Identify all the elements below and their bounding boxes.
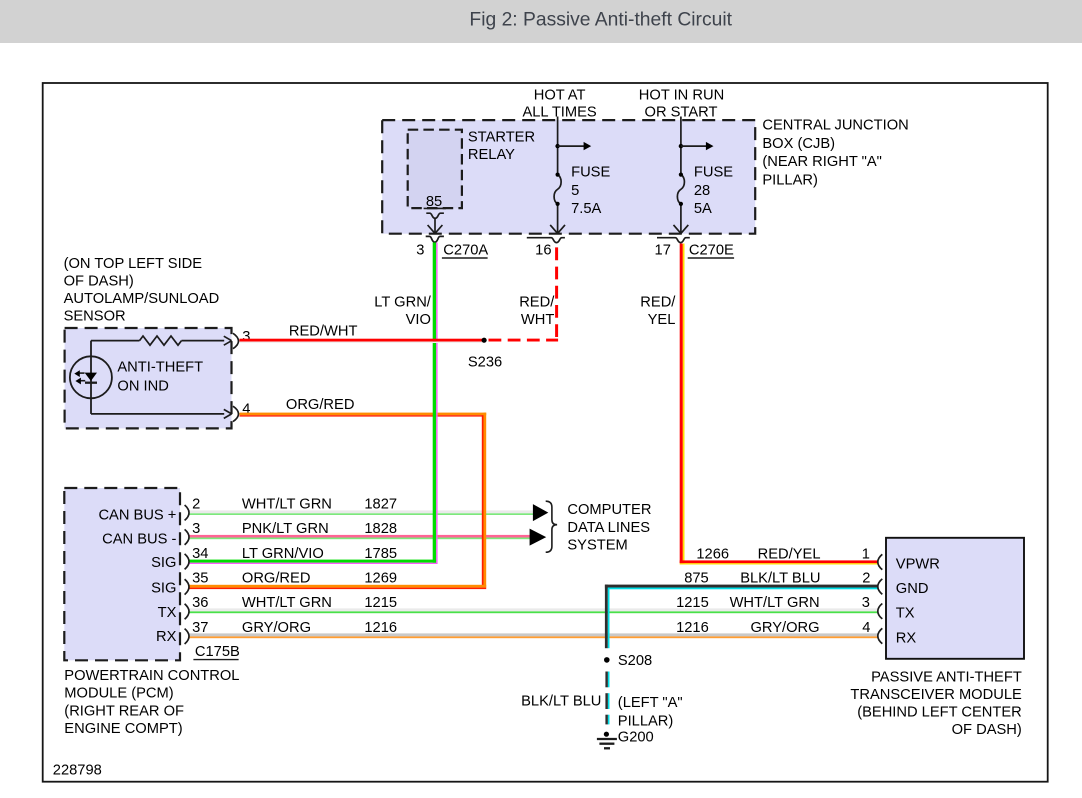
feed tap arrow at fuse 5: [555, 142, 591, 150]
net label HOT IN RUN OR START: [639, 87, 724, 120]
svg-text:S236: S236: [468, 354, 502, 370]
wire RED/WHT dashed segment: [489, 244, 559, 340]
svg-text:5: 5: [571, 183, 579, 199]
wire LT GRN/VIO 1785: [189, 243, 438, 565]
svg-text:DATA LINES: DATA LINES: [567, 520, 650, 536]
svg-text:GND: GND: [896, 581, 929, 597]
connector C270A pin 3: [416, 236, 488, 258]
svg-text:SENSOR: SENSOR: [64, 309, 126, 325]
splice S208: [604, 653, 652, 669]
svg-text:1828: 1828: [364, 521, 397, 537]
svg-text:RELAY: RELAY: [468, 147, 515, 163]
svg-text:CENTRAL JUNCTION: CENTRAL JUNCTION: [762, 118, 908, 134]
powertrain control module box: [64, 488, 180, 660]
connector C270E pin 17: [655, 238, 735, 259]
svg-text:1216: 1216: [364, 620, 397, 636]
svg-text:Fig 2: Passive Anti-theft Circ: Fig 2: Passive Anti-theft Circuit: [469, 9, 732, 30]
svg-text:3: 3: [862, 595, 870, 611]
svg-text:34: 34: [192, 546, 208, 562]
svg-text:STARTER: STARTER: [468, 130, 535, 146]
svg-text:PILLAR): PILLAR): [762, 173, 818, 189]
svg-text:RED/YEL: RED/YEL: [758, 546, 821, 562]
splice S236: [468, 338, 502, 371]
svg-text:RX: RX: [896, 630, 917, 646]
computer data lines arrow 1: [533, 504, 548, 521]
svg-text:(ON TOP LEFT SIDE: (ON TOP LEFT SIDE: [64, 256, 203, 272]
svg-text:PASSIVE ANTI-THEFT: PASSIVE ANTI-THEFT: [871, 669, 1022, 685]
svg-text:OF DASH): OF DASH): [952, 722, 1022, 738]
transceiver caption: [850, 669, 1022, 738]
connector C175B: [193, 644, 240, 660]
central junction box CJB: [382, 120, 755, 234]
wire RED/YEL 1266: [680, 244, 878, 565]
transceiver connector brackets: [878, 554, 883, 643]
svg-text:3: 3: [416, 243, 424, 259]
svg-text:1216: 1216: [676, 620, 709, 636]
svg-text:4: 4: [862, 620, 870, 636]
label RED/WHT vertical: [519, 295, 555, 329]
wire WHT/LT GRN 1827: [189, 510, 534, 515]
svg-text:HOT IN RUN: HOT IN RUN: [639, 87, 724, 103]
svg-text:PNK/LT GRN: PNK/LT GRN: [242, 521, 329, 537]
svg-text:RX: RX: [156, 629, 177, 645]
svg-text:1785: 1785: [364, 546, 397, 562]
svg-text:1215: 1215: [364, 595, 397, 611]
svg-text:ORG/RED: ORG/RED: [286, 397, 355, 413]
svg-text:CAN BUS -: CAN BUS -: [102, 532, 176, 548]
svg-text:WHT/LT GRN: WHT/LT GRN: [242, 595, 332, 611]
svg-text:C175B: C175B: [195, 644, 240, 660]
svg-text:RED/: RED/: [519, 295, 555, 311]
svg-text:BLK/LT BLU: BLK/LT BLU: [521, 693, 601, 709]
label RED/YEL vertical: [640, 295, 676, 329]
svg-text:ALL TIMES: ALL TIMES: [522, 104, 596, 120]
sensor pin 4: [224, 401, 251, 421]
svg-text:C270E: C270E: [689, 243, 734, 259]
transceiver side circuit numbers: [676, 546, 729, 635]
relay pin 85 connector: [426, 213, 444, 233]
sensor pin 3: [224, 329, 251, 349]
svg-text:228798: 228798: [53, 762, 102, 778]
svg-text:1215: 1215: [676, 595, 709, 611]
svg-text:2: 2: [862, 570, 870, 586]
svg-text:1827: 1827: [364, 497, 397, 513]
anti-theft on indicator label: [117, 359, 203, 394]
fuse F28 5A: [674, 117, 734, 234]
sensor internal bottom wire: [91, 413, 224, 415]
fuse F5 7.5A: [550, 117, 610, 234]
svg-text:TRANSCEIVER MODULE: TRANSCEIVER MODULE: [850, 687, 1022, 703]
svg-text:AUTOLAMP/SUNLOAD: AUTOLAMP/SUNLOAD: [64, 291, 220, 307]
PCM caption: [64, 668, 239, 737]
anti-theft LED: [70, 341, 112, 414]
svg-text:ANTI-THEFT: ANTI-THEFT: [117, 359, 203, 375]
wire WHT/LT GRN 1215: [189, 608, 878, 613]
label LT GRN/VIO: [374, 295, 432, 329]
relay pin 85 label: [424, 194, 446, 210]
svg-text:TX: TX: [158, 605, 177, 621]
PCM wire color labels: [242, 497, 332, 636]
svg-text:2: 2: [192, 497, 200, 513]
svg-text:1266: 1266: [696, 546, 729, 562]
svg-text:37: 37: [192, 620, 208, 636]
ground location label: [618, 695, 683, 730]
svg-text:ENGINE COMPT): ENGINE COMPT): [64, 721, 182, 737]
svg-text:1269: 1269: [364, 570, 397, 586]
svg-text:FUSE: FUSE: [694, 164, 733, 180]
resistor in sensor: [91, 336, 224, 345]
PCM pin name labels: [98, 507, 176, 645]
svg-text:GRY/ORG: GRY/ORG: [750, 620, 819, 636]
svg-text:RED/WHT: RED/WHT: [289, 323, 358, 339]
svg-text:SIG: SIG: [151, 555, 176, 571]
transceiver module box: [886, 538, 1024, 659]
svg-text:S208: S208: [618, 653, 652, 669]
svg-text:28: 28: [694, 183, 710, 199]
PCM pin numbers: [192, 497, 208, 636]
transceiver pin numbers: [862, 546, 871, 635]
svg-text:WHT: WHT: [521, 312, 554, 328]
svg-text:1: 1: [862, 546, 870, 562]
svg-text:ON IND: ON IND: [117, 379, 168, 395]
svg-text:875: 875: [684, 570, 709, 586]
svg-text:ORG/RED: ORG/RED: [242, 570, 311, 586]
svg-text:17: 17: [655, 243, 671, 259]
sensor caption: [64, 256, 220, 325]
wire GRY/ORG 1216: [189, 633, 878, 638]
computer data lines label: [567, 502, 651, 554]
svg-text:CAN BUS +: CAN BUS +: [98, 507, 176, 523]
svg-text:(NEAR RIGHT "A": (NEAR RIGHT "A": [762, 154, 882, 170]
wire BLK/LT BLU 875: [605, 585, 878, 725]
PCM circuit numbers: [364, 497, 397, 636]
svg-text:C270A: C270A: [443, 243, 488, 259]
computer data lines arrow 2: [530, 529, 547, 546]
svg-text:WHT/LT GRN: WHT/LT GRN: [242, 497, 332, 513]
svg-text:3: 3: [192, 521, 200, 537]
svg-text:35: 35: [192, 570, 208, 586]
wire ORG/RED 1269: [189, 413, 487, 589]
svg-text:WHT/LT GRN: WHT/LT GRN: [730, 595, 820, 611]
transceiver side wire labels: [730, 546, 821, 635]
svg-text:SYSTEM: SYSTEM: [567, 537, 627, 553]
svg-text:36: 36: [192, 595, 208, 611]
svg-text:PILLAR): PILLAR): [618, 714, 674, 730]
svg-text:G200: G200: [618, 730, 654, 746]
wire PNK/LT GRN 1828: [189, 535, 532, 539]
svg-text:LT GRN/: LT GRN/: [374, 295, 432, 311]
svg-text:BLK/LT BLU: BLK/LT BLU: [740, 570, 820, 586]
starter relay box: [408, 130, 535, 209]
svg-text:VPWR: VPWR: [896, 557, 940, 573]
feed tap arrow at fuse 28: [679, 142, 714, 150]
svg-text:POWERTRAIN CONTROL: POWERTRAIN CONTROL: [64, 668, 239, 684]
svg-text:YEL: YEL: [648, 312, 676, 328]
svg-text:(RIGHT REAR OF: (RIGHT REAR OF: [64, 703, 184, 719]
ground G200: [597, 730, 654, 749]
svg-text:(BEHIND LEFT CENTER: (BEHIND LEFT CENTER: [857, 705, 1022, 721]
net label HOT AT ALL TIMES: [522, 87, 596, 120]
transceiver pin labels: [896, 557, 940, 647]
svg-text:16: 16: [535, 243, 551, 259]
svg-text:HOT AT: HOT AT: [534, 87, 586, 103]
svg-text:GRY/ORG: GRY/ORG: [242, 620, 311, 636]
svg-text:COMPUTER: COMPUTER: [567, 502, 651, 518]
svg-text:RED/: RED/: [640, 295, 676, 311]
PCM connector brackets: [185, 505, 189, 644]
svg-text:FUSE: FUSE: [571, 164, 610, 180]
autolamp/sunload sensor box: [65, 328, 232, 428]
header bar: [0, 0, 1082, 43]
svg-text:BOX (CJB): BOX (CJB): [762, 136, 835, 152]
svg-text:5A: 5A: [694, 201, 712, 217]
svg-text:MODULE (PCM): MODULE (PCM): [64, 686, 173, 702]
computer data lines brace: [546, 501, 557, 552]
svg-text:OF DASH): OF DASH): [64, 274, 134, 290]
svg-text:VIO: VIO: [406, 312, 431, 328]
svg-text:SIG: SIG: [151, 581, 176, 597]
wire RED/WHT solid segment: [240, 339, 485, 343]
svg-text:7.5A: 7.5A: [571, 201, 601, 217]
svg-text:(LEFT "A": (LEFT "A": [618, 695, 683, 711]
connector pin 16: [527, 238, 565, 259]
svg-text:LT GRN/VIO: LT GRN/VIO: [242, 546, 324, 562]
CJB name label: [762, 118, 908, 189]
svg-text:TX: TX: [896, 606, 915, 622]
